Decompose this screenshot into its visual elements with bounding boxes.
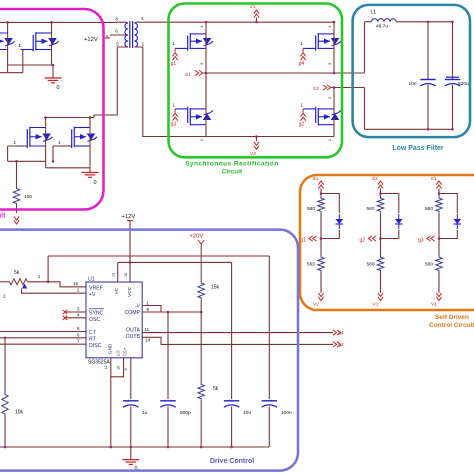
svg-text:g3: g3 [171,121,177,127]
svg-text:3: 3 [328,97,332,99]
svg-text:VREF: VREF [89,285,103,291]
svg-text:RT: RT [89,336,97,342]
svg-text:S2: S2 [372,176,378,182]
svg-text:CT: CT [89,330,97,336]
svg-text:VCC: VCC [127,286,133,297]
svg-text:OUTA: OUTA [126,328,141,334]
svg-text:Drive Control: Drive Control [210,458,254,465]
svg-text:V2: V2 [313,302,319,308]
svg-text:Self Driven: Self Driven [435,314,469,321]
svg-text:560: 560 [425,262,433,268]
svg-text:GND: GND [108,343,113,354]
svg-text:1u: 1u [142,410,148,416]
svg-text:48.7u: 48.7u [376,23,388,29]
svg-text:2: 2 [328,139,332,141]
svg-text:Circuit: Circuit [222,169,243,176]
svg-text:g4: g4 [339,330,345,335]
svg-text:DISC: DISC [89,343,102,349]
svg-text:10u: 10u [243,410,251,416]
svg-text:0: 0 [57,85,60,91]
svg-text:LO: LO [116,350,121,356]
svg-text:Low Pass Filter: Low Pass Filter [392,145,444,152]
svg-text:5k: 5k [213,386,219,392]
svg-text:g2: g2 [299,121,305,127]
svg-text:g1: g1 [171,61,177,67]
svg-text:S1: S1 [185,72,191,78]
svg-text:12: 12 [104,365,108,369]
svg-text:OSC: OSC [89,317,100,323]
svg-text:560: 560 [307,262,315,268]
svg-text:15k: 15k [211,285,220,291]
svg-text:10: 10 [116,366,120,370]
svg-text:Synchronous Rectification: Synchronous Rectification [185,161,278,168]
svg-text:+20V: +20V [190,234,204,240]
svg-text:2: 2 [200,139,204,141]
svg-text:V1: V1 [431,302,437,308]
svg-text:560: 560 [367,206,375,212]
svg-text:S2: S2 [313,86,319,92]
svg-text:13: 13 [112,273,116,277]
svg-text:g2: g2 [360,238,366,244]
svg-text:+12V: +12V [84,37,98,43]
svg-text:100: 100 [24,194,32,200]
svg-text:S1: S1 [313,176,319,182]
svg-text:2: 2 [200,26,204,28]
svg-text:SYNC: SYNC [89,311,104,317]
svg-text:OUTB: OUTB [126,334,141,340]
svg-text:V1: V1 [373,302,379,308]
svg-text:g3: g3 [418,238,424,244]
svg-text:560: 560 [367,262,375,268]
svg-text:10n: 10n [409,81,417,87]
svg-text:10k: 10k [15,410,24,416]
svg-text:560: 560 [307,206,315,212]
svg-text:+12V: +12V [122,214,136,220]
svg-text:S1: S1 [431,176,437,182]
svg-text:560: 560 [425,206,433,212]
svg-text:-V: -V [135,304,141,310]
svg-text:520u: 520u [458,81,469,87]
svg-text:5k: 5k [14,270,20,276]
svg-text:COMP: COMP [124,310,140,316]
svg-text:cuit: cuit [0,213,6,220]
svg-text:Control Circuit: Control Circuit [429,322,474,329]
svg-text:14: 14 [145,338,151,343]
svg-text:+V: +V [89,292,96,298]
svg-text:0: 0 [94,180,97,186]
svg-text:L1: L1 [371,10,377,16]
svg-text:8: 8 [124,368,128,370]
svg-text:2: 2 [328,26,332,28]
svg-text:VC: VC [114,287,120,294]
svg-text:100n: 100n [281,410,292,416]
svg-text:500p: 500p [180,410,191,416]
svg-text:16: 16 [73,281,79,286]
svg-text:15: 15 [124,273,128,277]
svg-text:3: 3 [200,63,204,65]
svg-text:CS+: CS+ [123,347,128,356]
svg-text:g2: g2 [339,342,345,347]
svg-text:V1: V1 [250,4,256,10]
svg-text:11: 11 [145,327,150,332]
svg-text:SG3525A: SG3525A [88,360,110,366]
svg-text:g4: g4 [299,61,305,67]
svg-text:3: 3 [328,63,332,65]
